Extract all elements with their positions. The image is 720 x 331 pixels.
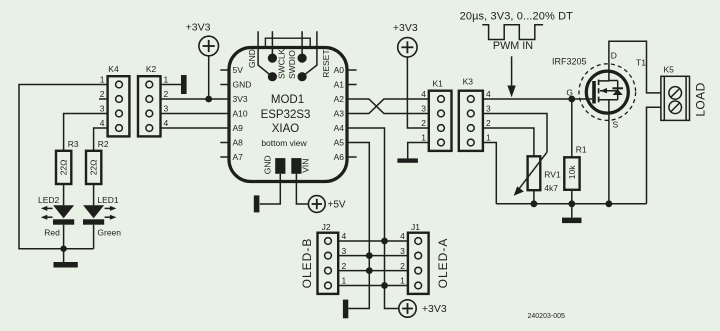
ground (below J2) bbox=[343, 300, 348, 319]
wire K3 pin3 to RV1 wiper bbox=[483, 114, 547, 153]
channel segments bbox=[598, 80, 600, 86]
svg-text:SWCLK: SWCLK bbox=[276, 48, 286, 79]
gate bar bbox=[592, 81, 596, 104]
svg-text:3: 3 bbox=[342, 246, 347, 256]
svg-text:2: 2 bbox=[400, 261, 405, 271]
LED2 red bbox=[38, 195, 74, 238]
svg-text:A4: A4 bbox=[334, 123, 345, 133]
node row4 junction bbox=[381, 238, 388, 245]
svg-text:Green: Green bbox=[97, 227, 121, 237]
wire K2 pin2 3V3 line to module bbox=[161, 98, 229, 100]
wire K2 pin3 to module A10 bbox=[161, 113, 229, 115]
svg-text:A7: A7 bbox=[233, 152, 244, 162]
svg-text:LED1: LED1 bbox=[97, 195, 119, 205]
svg-text:10k: 10k bbox=[567, 165, 577, 179]
node LED rail junction bbox=[60, 246, 66, 252]
wire RV1 bottom to rail bbox=[533, 190, 535, 204]
svg-text:K2: K2 bbox=[146, 64, 157, 74]
wire K1 pin1 to ground bbox=[408, 143, 429, 159]
wire +3V3 to 3V3 node bbox=[208, 56, 210, 99]
wire K2 pin4 to module A9 bbox=[161, 127, 229, 129]
wire gate node to R1 bbox=[571, 99, 573, 157]
svg-text:RESET: RESET bbox=[321, 49, 331, 77]
svg-text:4: 4 bbox=[486, 89, 491, 99]
pin SWCLK stub of MOD1 bbox=[271, 31, 273, 58]
body circle bbox=[586, 71, 628, 113]
svg-text:R1: R1 bbox=[576, 145, 587, 155]
node source rail junction bbox=[606, 200, 613, 207]
svg-text:A8: A8 bbox=[233, 138, 244, 148]
pin A0 stub MOD1 bbox=[347, 69, 357, 71]
svg-text:1: 1 bbox=[342, 276, 347, 286]
svg-text:4: 4 bbox=[421, 89, 426, 99]
pad SWDIO MOD1 bbox=[298, 54, 307, 63]
svg-text:1: 1 bbox=[400, 276, 405, 286]
wire OLED row 3 bbox=[338, 255, 408, 257]
svg-text:3: 3 bbox=[486, 104, 491, 114]
connector K5 (screw terminal, LOAD) bbox=[661, 65, 708, 121]
wire K4 pin3 to R3 bbox=[64, 114, 108, 151]
svg-text:1: 1 bbox=[486, 133, 491, 143]
svg-text:bottom view: bottom view bbox=[261, 138, 307, 148]
svg-text:R3: R3 bbox=[68, 139, 79, 149]
connector J1 (OLED-A) bbox=[400, 222, 450, 294]
node row2 junction bbox=[366, 267, 373, 274]
svg-text:GND: GND bbox=[263, 155, 273, 174]
pin GND top stub of MOD1 bbox=[258, 31, 272, 76]
transistor T1 IRF3205 (power MOSFET) bbox=[552, 51, 646, 130]
node R1 rail junction bbox=[568, 200, 575, 207]
svg-text:+3V3: +3V3 bbox=[422, 303, 447, 315]
ground (LED rail) bbox=[63, 249, 65, 262]
wire LED1 to rail bbox=[93, 225, 95, 249]
pin A8 stub MOD1 bbox=[220, 142, 229, 144]
svg-text:+3V3: +3V3 bbox=[186, 22, 211, 34]
pin A7 stub MOD1 bbox=[220, 156, 229, 158]
svg-text:1: 1 bbox=[164, 75, 169, 85]
power +3V3 (bottom) bbox=[399, 300, 447, 317]
svg-text:ESP32S3: ESP32S3 bbox=[261, 109, 311, 121]
body diode bbox=[617, 81, 619, 100]
wire K2 pin1 to ground bbox=[161, 84, 182, 86]
pin A1 stub MOD1 bbox=[347, 84, 357, 86]
resistor R3 22R bbox=[56, 139, 79, 184]
wire LED2 to rail bbox=[63, 225, 65, 249]
wire A3 to K1 pin4 (crossover) bbox=[347, 99, 429, 114]
svg-text:3: 3 bbox=[164, 104, 169, 114]
svg-text:4: 4 bbox=[342, 231, 347, 241]
pad RESET MOD1 bbox=[298, 72, 307, 81]
node 3V3 junction bbox=[205, 96, 212, 103]
svg-text:1: 1 bbox=[100, 75, 105, 85]
svg-text:LED2: LED2 bbox=[38, 195, 60, 205]
drain internal bbox=[599, 71, 609, 81]
LED1 green bbox=[83, 195, 121, 238]
svg-text:2: 2 bbox=[342, 261, 347, 271]
node row3 junction bbox=[366, 252, 373, 259]
ground (bar near K2) bbox=[181, 75, 187, 94]
wire OLED row 1 bbox=[338, 285, 408, 287]
wire K4 pin1 to LED ground rail bbox=[19, 85, 108, 249]
wire R3 to LED2 bbox=[63, 184, 65, 205]
svg-text:4k7: 4k7 bbox=[544, 183, 558, 193]
svg-text:3V3: 3V3 bbox=[233, 94, 248, 104]
connector K2 bbox=[138, 64, 169, 136]
svg-text:IRF3205: IRF3205 bbox=[552, 57, 587, 67]
svg-text:MOD1: MOD1 bbox=[271, 94, 304, 106]
svg-text:5V: 5V bbox=[233, 65, 244, 75]
svg-text:VIN: VIN bbox=[301, 159, 311, 173]
op-amp MOD1 module outline (ESP32S3 XIAO, bottom view) bbox=[229, 48, 347, 182]
svg-text:2: 2 bbox=[100, 89, 105, 99]
svg-text:GND: GND bbox=[247, 49, 257, 68]
connector K3 bbox=[459, 77, 491, 151]
node gate junction bbox=[568, 96, 575, 103]
pin RESET top stub of MOD1 bbox=[302, 31, 317, 76]
waveform PWM pulse bbox=[482, 25, 543, 40]
wire MOD1 GND pad to ground bbox=[260, 174, 281, 204]
connector J2 (OLED-B) bbox=[300, 222, 346, 294]
svg-text:D: D bbox=[611, 51, 617, 61]
dashed package circle bbox=[579, 64, 636, 121]
pad GND bottom of MOD1 bbox=[275, 158, 285, 174]
svg-text:G: G bbox=[566, 88, 573, 98]
power +3V3 (top middle) bbox=[393, 22, 418, 57]
svg-text:RV1: RV1 bbox=[544, 170, 561, 180]
power +5V bbox=[308, 196, 346, 213]
wire K4 pin4 to R2 bbox=[94, 128, 108, 151]
svg-text:OLED-A: OLED-A bbox=[436, 238, 450, 289]
wire OLED row 4 bbox=[338, 240, 408, 242]
wire A4 down to OLED rows bbox=[347, 128, 399, 309]
wire A2 to K1 pin3 (crossover) bbox=[347, 99, 429, 114]
power +3V3 (top left) bbox=[186, 22, 219, 56]
pad GND MOD1 bbox=[268, 72, 277, 81]
wire K3 pin1 to ground rail bbox=[483, 143, 496, 204]
svg-text:A0: A0 bbox=[334, 65, 345, 75]
svg-text:22Ω: 22Ω bbox=[89, 159, 99, 175]
wire R2 to LED1 bbox=[93, 184, 95, 205]
body arrow bbox=[600, 90, 618, 92]
ground (main rail) bbox=[571, 204, 573, 218]
svg-text:20µs, 3V3, 0...20% DT: 20µs, 3V3, 0...20% DT bbox=[460, 11, 574, 23]
wire source to ground rail bbox=[608, 113, 610, 204]
wire K5 pin2 to ground rail bbox=[647, 107, 662, 204]
svg-text:A10: A10 bbox=[233, 109, 248, 119]
svg-text:A3: A3 bbox=[334, 109, 345, 119]
svg-text:Red: Red bbox=[44, 227, 60, 237]
pad SWCLK MOD1 bbox=[268, 54, 277, 63]
source internal bbox=[599, 99, 618, 101]
svg-text:LOAD: LOAD bbox=[694, 82, 708, 116]
svg-text:J1: J1 bbox=[411, 222, 420, 232]
node RV1 rail junction bbox=[531, 200, 538, 207]
potentiometer RV1 4k7 bbox=[514, 152, 561, 196]
svg-text:T1: T1 bbox=[636, 58, 646, 68]
pin 5V stub MOD1 bbox=[220, 69, 229, 71]
svg-text:2: 2 bbox=[164, 89, 169, 99]
svg-text:J2: J2 bbox=[322, 222, 331, 232]
pin SWDIO stub of MOD1 bbox=[301, 31, 303, 58]
svg-text:2: 2 bbox=[486, 118, 491, 128]
wire PWM IN arrow bbox=[511, 56, 513, 86]
svg-text:1: 1 bbox=[421, 133, 426, 143]
wire +3V3 to K1 pin2 bbox=[407, 57, 428, 128]
svg-text:4: 4 bbox=[100, 118, 105, 128]
wire R1 bottom to rail bbox=[571, 190, 573, 204]
svg-text:3: 3 bbox=[400, 246, 405, 256]
svg-text:+5V: +5V bbox=[328, 200, 346, 211]
wire K3 pin2 to RV1 top bbox=[483, 128, 534, 156]
svg-text:K1: K1 bbox=[433, 79, 444, 89]
svg-text:R2: R2 bbox=[98, 139, 109, 149]
connector K1 bbox=[421, 79, 451, 151]
ground (bar below MOD1) bbox=[254, 195, 260, 212]
svg-text:A2: A2 bbox=[334, 94, 345, 104]
svg-text:A6: A6 bbox=[334, 152, 345, 162]
wire MOD1 VIN pad to +5V bbox=[296, 174, 308, 204]
svg-text:+3V3: +3V3 bbox=[393, 22, 418, 34]
resistor R2 22R bbox=[86, 139, 109, 184]
pin GND stub MOD1 bbox=[220, 84, 229, 86]
svg-text:3: 3 bbox=[100, 104, 105, 114]
svg-text:K4: K4 bbox=[108, 64, 119, 74]
svg-text:2: 2 bbox=[421, 118, 426, 128]
svg-text:A5: A5 bbox=[334, 138, 345, 148]
wire K4 pin2 stub bbox=[99, 98, 108, 100]
svg-text:OLED-B: OLED-B bbox=[300, 238, 314, 289]
resistor R1 10k bbox=[564, 145, 587, 190]
pad VIN bottom of MOD1 bbox=[291, 158, 301, 174]
node row1 junction bbox=[381, 282, 388, 289]
wire OLED row 2 bbox=[338, 270, 408, 272]
wire K3 pin4 to gate node bbox=[483, 98, 592, 100]
wire drain to K5 pin1 bbox=[609, 41, 661, 93]
svg-text:A9: A9 bbox=[233, 123, 244, 133]
svg-text:K3: K3 bbox=[463, 77, 474, 87]
svg-text:S: S bbox=[613, 120, 619, 130]
svg-text:A1: A1 bbox=[334, 80, 345, 90]
pin A6 stub MOD1 bbox=[347, 156, 357, 158]
svg-text:XIAO: XIAO bbox=[272, 123, 300, 135]
wire A5 down to OLED rows bbox=[347, 143, 369, 309]
svg-text:4: 4 bbox=[164, 118, 169, 128]
wire ground rail bbox=[496, 203, 646, 205]
connector K4 bbox=[100, 64, 130, 136]
svg-text:SWDIO: SWDIO bbox=[287, 50, 297, 79]
svg-text:3: 3 bbox=[421, 104, 426, 114]
USB connector outline on MOD1 bbox=[265, 38, 310, 47]
svg-text:K5: K5 bbox=[664, 65, 675, 75]
svg-text:22Ω: 22Ω bbox=[59, 159, 69, 175]
svg-text:240203-005: 240203-005 bbox=[528, 313, 565, 320]
svg-text:PWM IN: PWM IN bbox=[493, 40, 533, 52]
ground (below K1) bbox=[397, 158, 418, 162]
svg-text:4: 4 bbox=[400, 231, 405, 241]
svg-text:GND: GND bbox=[233, 80, 252, 90]
